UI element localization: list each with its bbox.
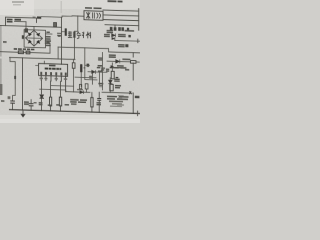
- label C3: [34, 102, 37, 103]
- wire rail2: [0, 52, 50, 54]
- wire ground bus: [10, 110, 140, 114]
- transformer box left edge: [85, 48, 97, 80]
- scan bleed smudge: [61, 1, 62, 13]
- wire: [57, 47, 59, 59]
- IC pin 4: [55, 76, 57, 81]
- junction plus: [130, 91, 132, 94]
- wire: [74, 16, 77, 60]
- diode D8: [116, 60, 120, 64]
- faint label: [118, 95, 124, 97]
- capacitor C26: [125, 44, 128, 47]
- annotation char 2: [77, 32, 81, 39]
- IC U1 STR-D6008 box: [39, 63, 68, 76]
- wire: [40, 89, 66, 91]
- diode D6: [112, 34, 116, 37]
- wire: [115, 39, 140, 42]
- wire right rail: [132, 53, 134, 114]
- capacitor C9: [65, 28, 67, 35]
- diode D2: [36, 33, 40, 37]
- capacitor C13: [85, 84, 88, 89]
- label C14: [97, 102, 101, 104]
- wire: [41, 15, 84, 18]
- capacitor C2: [11, 101, 15, 103]
- wire: [66, 91, 90, 94]
- capacitor C23: [121, 27, 124, 31]
- label C16b: [98, 70, 102, 72]
- wire: [92, 73, 94, 84]
- resistor R5: [131, 61, 137, 64]
- wire: [10, 58, 15, 101]
- label C5 400V: [45, 36, 51, 38]
- IC label STR-D6008: [45, 68, 48, 70]
- label: [97, 67, 101, 69]
- annotation char 3: [82, 32, 84, 38]
- IC pin 1: [40, 76, 42, 81]
- capacitor C4: [22, 35, 25, 39]
- wire: [120, 60, 131, 62]
- label under D5: [39, 102, 43, 104]
- wire: [60, 81, 62, 111]
- fuse F2: [54, 23, 57, 27]
- line filter T0 box: [84, 11, 103, 21]
- wire: [30, 100, 32, 111]
- zener ZD1: [111, 65, 114, 68]
- annotation char 4: [86, 32, 90, 38]
- wire rail: [61, 17, 63, 64]
- wire: [62, 31, 65, 33]
- wire: [98, 72, 100, 84]
- bridge cross wires: [26, 30, 43, 46]
- wire secondary line3: [103, 20, 139, 21]
- label 220u 25V: [107, 30, 113, 32]
- resistor R8: [110, 84, 113, 91]
- faint page header text top-left: [12, 1, 24, 3]
- label 400V row: [45, 40, 51, 42]
- wire: [88, 71, 107, 74]
- wire: [111, 63, 113, 71]
- fuse F1: [37, 16, 41, 18]
- wire stub: [43, 61, 45, 64]
- wire: [98, 92, 100, 112]
- resistor R1: [18, 51, 23, 54]
- label R9: [48, 104, 52, 106]
- label R11 left: [1, 100, 4, 102]
- resistor R7 small: [116, 77, 119, 78]
- label 2A: [101, 67, 105, 68]
- resistor R10: [59, 97, 61, 106]
- wire: [40, 80, 42, 110]
- wire secondary line4: [105, 25, 139, 26]
- label L3: [3, 41, 7, 43]
- line filter label: [85, 7, 92, 9]
- label PC1: [109, 54, 116, 56]
- capacitor C14: [98, 98, 101, 100]
- wire: [75, 76, 96, 79]
- wire: [51, 85, 73, 88]
- thermistor RT1: [25, 28, 28, 32]
- wire: [136, 61, 139, 63]
- wire secondary line2: [103, 15, 139, 16]
- wire: [114, 25, 116, 27]
- resistor R13 on wire: [14, 76, 16, 79]
- wire: [49, 43, 51, 53]
- label R10: [56, 104, 60, 106]
- resistor R2: [26, 51, 30, 54]
- IC pin numbers: [40, 72, 42, 75]
- label 220 25V: [24, 101, 29, 103]
- wire: [22, 110, 24, 114]
- wire primary rail: [58, 47, 140, 53]
- capacitor C21: [114, 27, 117, 31]
- resistor R6: [111, 71, 114, 79]
- labels under bridge: [14, 48, 17, 50]
- wire: [137, 39, 139, 43]
- IC pin 2: [45, 76, 47, 81]
- label TH right: [135, 96, 140, 99]
- capacitor C25: [128, 35, 130, 38]
- winding tap resistor R4: [87, 64, 90, 67]
- wire: [114, 38, 116, 41]
- bridge rectifier BR1: [26, 30, 43, 46]
- diode D9: [109, 80, 113, 84]
- label top right: [108, 0, 117, 2]
- label R12 5W: [114, 79, 120, 81]
- IC label SANKEN: [49, 65, 56, 67]
- wire: [102, 52, 104, 89]
- wire: [85, 64, 90, 66]
- capacitor C3: [29, 104, 33, 106]
- label above D10: [77, 89, 83, 90]
- capacitor C10: [73, 31, 75, 37]
- label C10: [58, 33, 61, 36]
- wire: [36, 64, 39, 66]
- label input: [15, 19, 22, 21]
- wire + output: [46, 33, 53, 35]
- wire: [12, 104, 14, 110]
- wire rail3: [10, 57, 76, 59]
- capacitor C11 electrolytic: [80, 64, 82, 72]
- input terminal box: [6, 17, 37, 26]
- label C2: [8, 96, 11, 99]
- diode D1: [28, 32, 32, 36]
- label R816: [122, 58, 130, 60]
- wire: [50, 81, 52, 111]
- wire: [91, 92, 93, 112]
- line filter coils: [87, 12, 90, 18]
- wire: [25, 22, 27, 29]
- label BU2: [125, 69, 129, 71]
- diode D10: [80, 91, 84, 94]
- label 100u 35V: [104, 34, 110, 36]
- wire: [15, 20, 27, 22]
- diode D6b: [112, 37, 116, 40]
- label right top: [125, 30, 135, 32]
- diode D4: [36, 40, 40, 44]
- resistor R3: [72, 63, 75, 69]
- label mid row: [70, 99, 79, 101]
- IC pin 5: [60, 76, 62, 81]
- IC pin 3: [50, 76, 52, 81]
- annotation char 1: [68, 32, 72, 38]
- label minus: [46, 41, 49, 42]
- diode D3: [28, 40, 32, 44]
- wire - output: [46, 42, 51, 44]
- left edge dark blob: [0, 84, 2, 95]
- pin labels under IC: [40, 78, 43, 80]
- label plus: [46, 31, 49, 33]
- wire: [102, 91, 132, 94]
- right page edge line: [138, 9, 140, 31]
- diode D5: [40, 95, 44, 99]
- resistor R9: [50, 97, 52, 106]
- capacitor C22: [118, 27, 121, 31]
- left edge scan line: [0, 26, 2, 88]
- label: [118, 44, 125, 46]
- label C18: [98, 83, 103, 85]
- capacitor C16: [106, 69, 109, 70]
- resistor R11: [91, 98, 93, 107]
- wire tick: [137, 111, 139, 116]
- wire AC bus: [0, 25, 62, 27]
- label 680 1W: [115, 85, 121, 87]
- ground: [20, 114, 25, 118]
- wire: [73, 59, 75, 91]
- label 1N4148: [110, 67, 119, 69]
- capacitor C24: [127, 28, 129, 31]
- bridge box: [24, 30, 45, 48]
- diode D7: [92, 70, 96, 73]
- wire: [22, 58, 24, 110]
- label C15: [98, 57, 102, 59]
- wire: [107, 60, 116, 62]
- capacitor C12: [79, 84, 81, 88]
- page margin light strip bottom: [0, 115, 140, 123]
- wire: [33, 26, 35, 30]
- label C17: [98, 65, 103, 67]
- wire: [86, 89, 88, 92]
- wire: [109, 78, 111, 93]
- capacitor C20: [110, 27, 113, 31]
- wire secondary line1: [103, 10, 139, 11]
- label: [89, 76, 92, 79]
- label 4R5: [117, 65, 124, 67]
- label 220V AC: [7, 19, 13, 21]
- label F1: [33, 17, 36, 18]
- label table bottom right: [107, 96, 117, 98]
- IC pin 6: [65, 76, 67, 91]
- label 12.8V: [118, 34, 126, 36]
- paper background: [0, 0, 140, 123]
